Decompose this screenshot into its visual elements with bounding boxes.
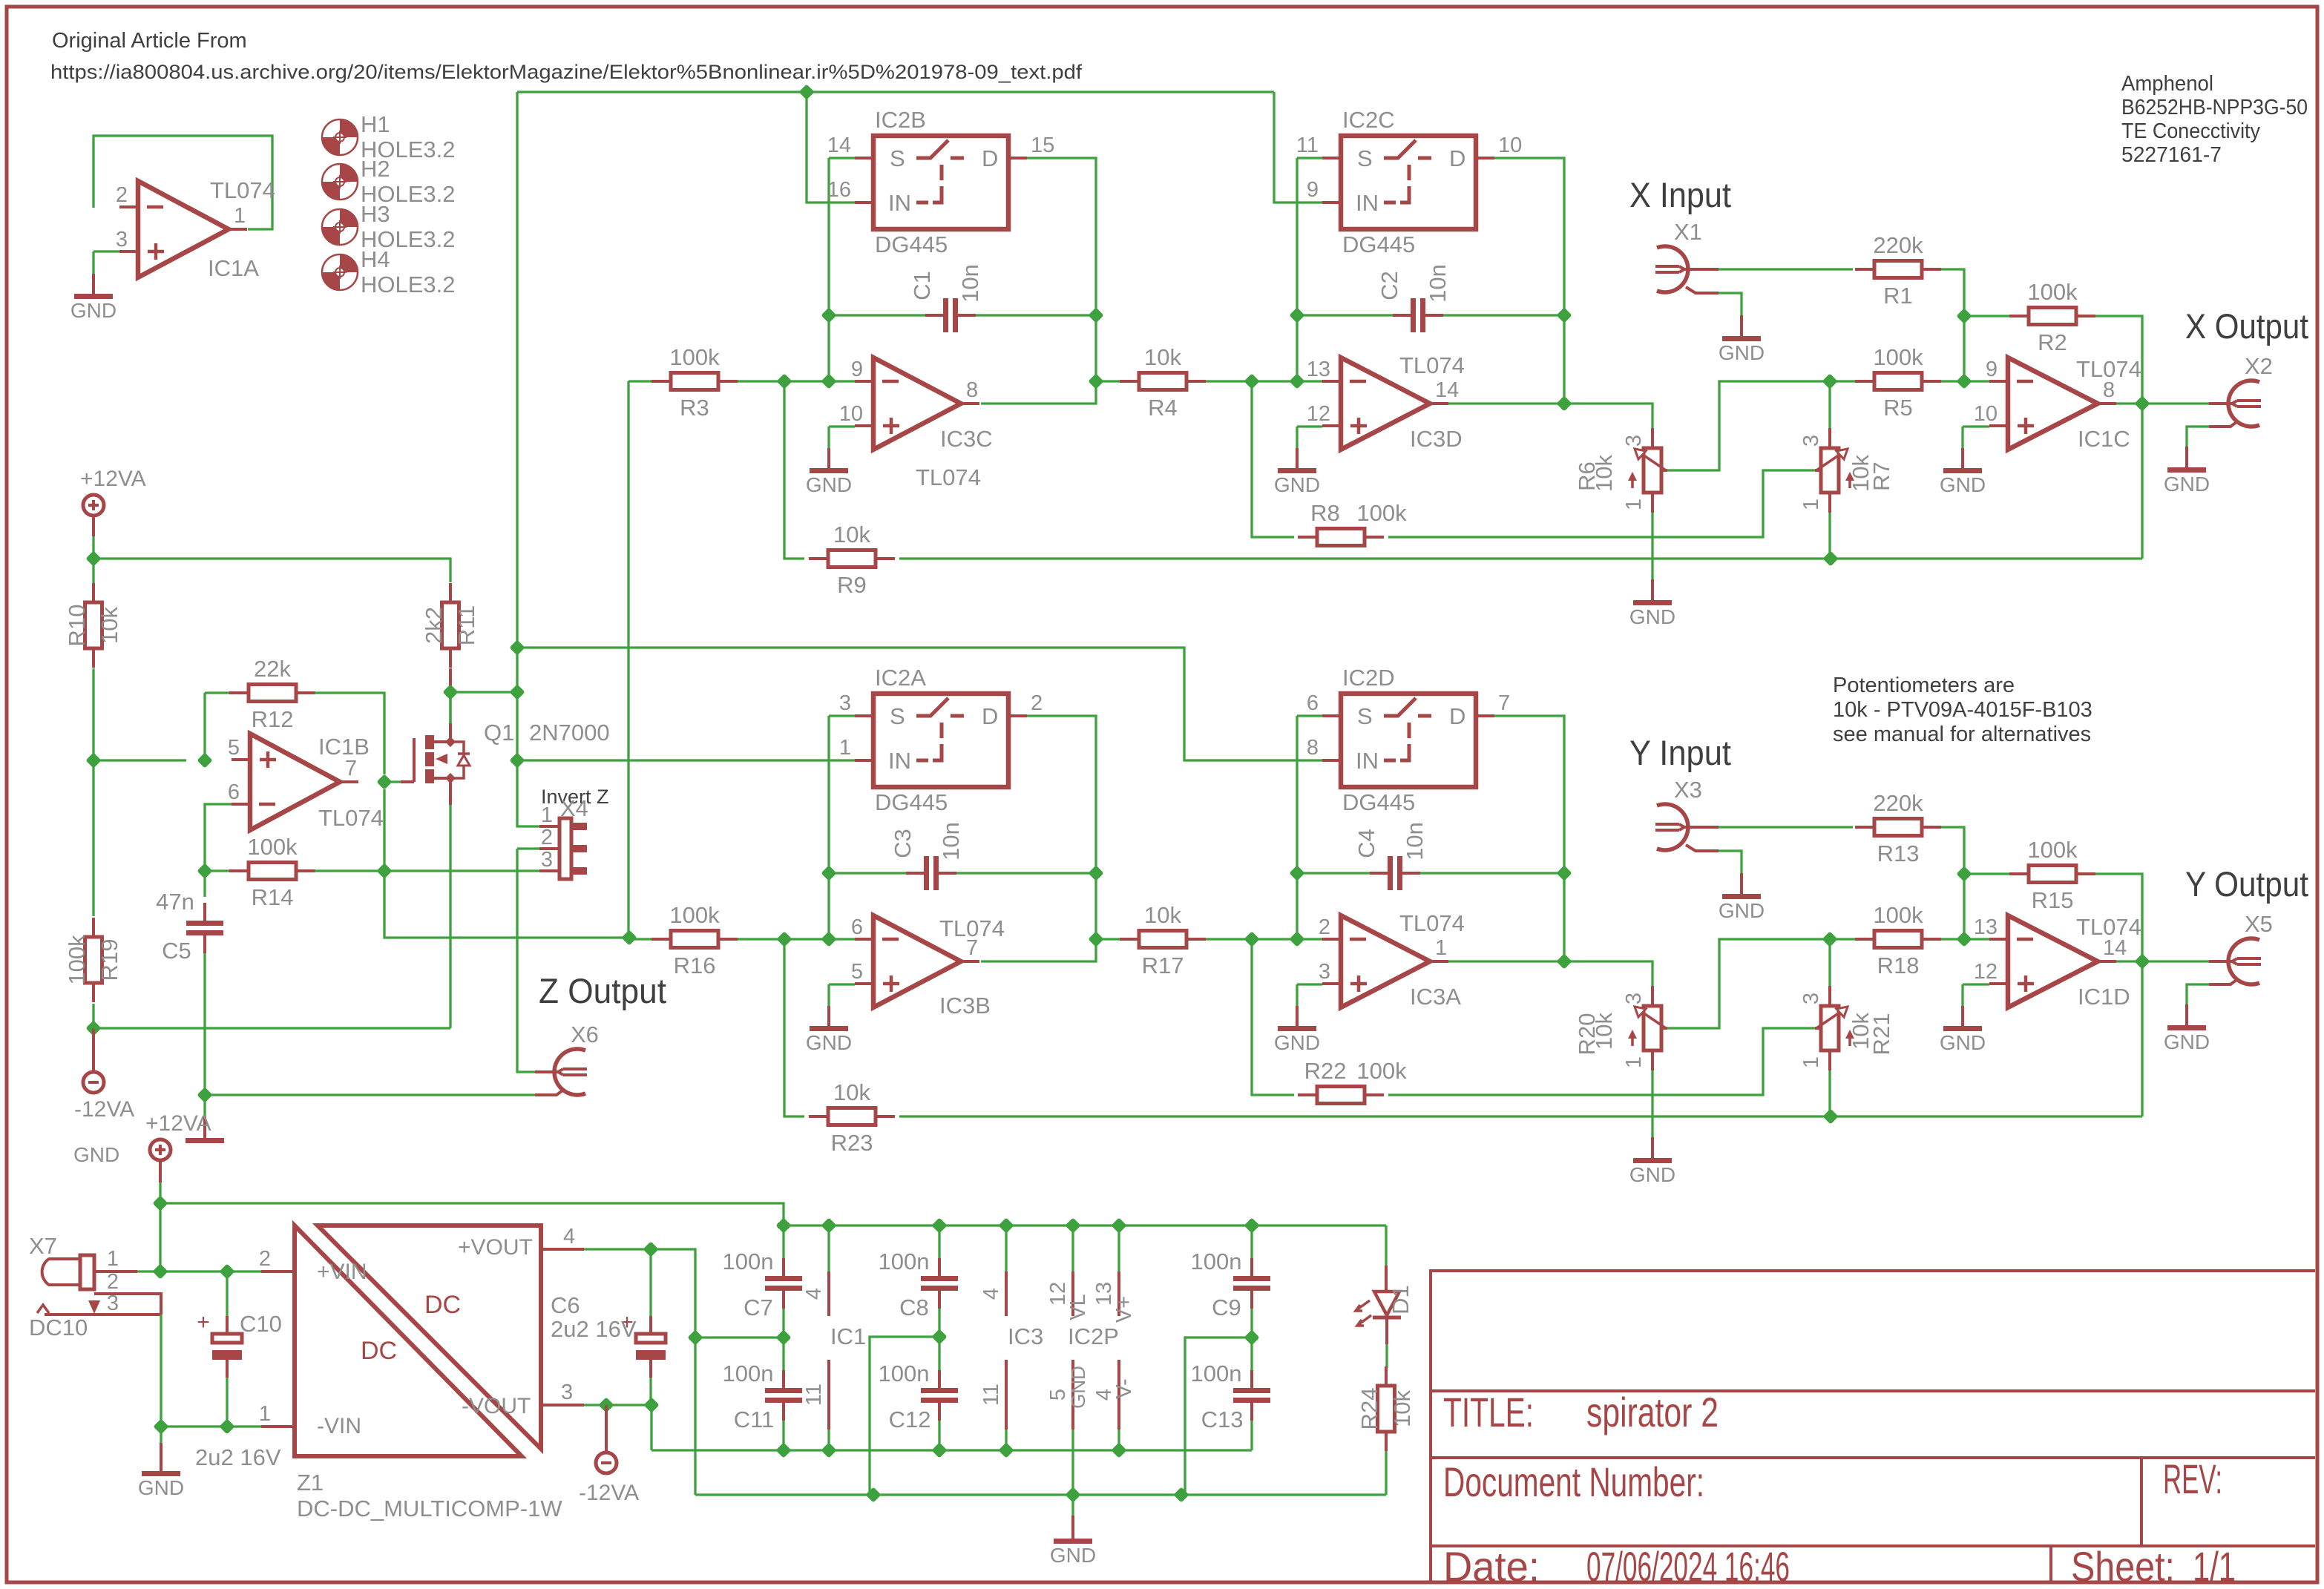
svg-text:7: 7 (345, 757, 357, 780)
ground X5 (2187, 984, 2209, 1004)
svg-text:C13: C13 (1201, 1407, 1244, 1432)
wire R16 right to op-amp (738, 938, 855, 940)
wire R14 right to node (315, 869, 384, 872)
hole H1 (340, 119, 358, 137)
svg-text:D: D (982, 703, 998, 729)
svg-text:4: 4 (802, 1288, 826, 1300)
svg-text:100k: 100k (2027, 279, 2078, 305)
ground IC2P (1071, 1516, 1074, 1541)
svg-text:10k: 10k (96, 607, 122, 644)
wire IC1B pin6 to R14 (205, 804, 232, 871)
svg-text:R3: R3 (680, 395, 709, 421)
wire R12 loop (203, 693, 206, 760)
svg-text:GND: GND (1940, 1031, 1986, 1054)
svg-text:10: 10 (1498, 134, 1522, 157)
op-amp IC3A (1341, 915, 1430, 1007)
ground X1 (1719, 293, 1742, 315)
wire R11 bottom to Q1 drain (449, 668, 452, 692)
-12VA supply bottom (605, 1405, 608, 1452)
hole H2 (340, 164, 358, 182)
resistor R19 100k (92, 918, 95, 937)
wire R21 bottom to feedback (1828, 1070, 1831, 1116)
wire IC1D + to ground (1963, 983, 1989, 985)
svg-text:D: D (1449, 703, 1465, 729)
svg-text:IC1A: IC1A (208, 255, 259, 281)
wire IC1B out to Q1 gate (384, 780, 401, 783)
svg-text:3: 3 (1799, 993, 1823, 1004)
svg-text:GND: GND (806, 473, 852, 496)
svg-text:Original Article From: Original Article From (52, 29, 247, 53)
svg-text:IC1D: IC1D (2078, 984, 2130, 1010)
svg-text:R7: R7 (1868, 461, 1894, 491)
svg-text:C6: C6 (551, 1292, 580, 1318)
wire to IC2B IN (807, 92, 855, 203)
connector X2 output (2228, 381, 2259, 427)
svg-text:+VOUT: +VOUT (458, 1235, 533, 1260)
svg-text:DG445: DG445 (875, 789, 948, 815)
svg-text:IC3B: IC3B (939, 993, 991, 1019)
svg-text:IC2A: IC2A (875, 665, 926, 691)
wire D1 to R24 (1385, 1344, 1388, 1368)
svg-text:C10: C10 (240, 1311, 282, 1337)
svg-text:X Input: X Input (1629, 175, 1731, 214)
svg-text:Sheet:: Sheet: (2071, 1543, 2175, 1589)
svg-text:47n: 47n (156, 889, 194, 915)
svg-text:IC3D: IC3D (1410, 426, 1463, 452)
resistor R1 220k (1855, 268, 1874, 271)
wire feedback R22 (1252, 939, 1294, 1095)
IC3 power pins (1005, 1271, 1008, 1316)
svg-text:100k: 100k (64, 935, 90, 985)
wire C2 right (1443, 314, 1564, 316)
svg-text:GND: GND (73, 1143, 119, 1166)
svg-text:GND: GND (138, 1476, 184, 1499)
wire IC2B D pin down (981, 158, 1096, 404)
svg-text:IN: IN (888, 190, 911, 216)
wire R1 right (1941, 269, 1964, 381)
wire X7 pin1 to Z1 (160, 1270, 261, 1272)
svg-text:IC1B: IC1B (318, 734, 370, 760)
svg-text:R13: R13 (1877, 840, 1920, 866)
svg-text:3: 3 (839, 691, 851, 715)
resistor R9 10k (809, 557, 828, 560)
svg-text:2u2 16V: 2u2 16V (195, 1444, 281, 1470)
svg-text:D: D (982, 145, 998, 171)
wire C5 bottom to GND (203, 953, 206, 1095)
svg-text:R18: R18 (1877, 953, 1920, 978)
switch IC2B DG445 (873, 136, 1008, 229)
svg-text:12: 12 (1307, 402, 1330, 426)
svg-text:11: 11 (1296, 134, 1319, 157)
wire C8 bottom to GND rail (870, 1337, 939, 1495)
resistor R24 10k (1385, 1366, 1388, 1386)
svg-text:IN: IN (1356, 748, 1379, 774)
svg-text:TL074: TL074 (916, 464, 981, 490)
resistor R13 220k (1855, 826, 1874, 829)
svg-text:10k: 10k (1591, 455, 1617, 492)
svg-text:3: 3 (107, 1292, 119, 1315)
svg-text:Date:: Date: (1443, 1543, 1540, 1589)
svg-text:TL074: TL074 (939, 915, 1005, 941)
wire R15 right down (2095, 874, 2142, 1116)
svg-text:GND: GND (806, 1031, 852, 1054)
X7 pin2 (94, 1294, 161, 1315)
svg-text:100k: 100k (1356, 500, 1407, 526)
svg-text:1: 1 (1622, 1056, 1646, 1068)
svg-text:+VIN: +VIN (317, 1260, 367, 1284)
capacitor C12 100n (921, 1388, 958, 1393)
svg-text:10: 10 (1974, 402, 1998, 426)
resistor R5 100k (1855, 380, 1874, 383)
svg-text:R9: R9 (837, 572, 867, 598)
+12VA supply top (83, 495, 104, 516)
V- rail (651, 1449, 1252, 1451)
-12VA supply (83, 1072, 104, 1093)
svg-text:TL074: TL074 (1399, 910, 1465, 936)
svg-text:07/06/2024 16:46: 07/06/2024 16:46 (1586, 1543, 1790, 1589)
wire -12VA rail to Q1 source (93, 1027, 450, 1029)
wire control to IC2A IN (517, 759, 855, 761)
wire IC1B output node vertical (384, 789, 629, 938)
wire C4 left (1297, 872, 1370, 874)
svg-text:S: S (890, 703, 905, 729)
svg-text:TL074: TL074 (318, 805, 384, 831)
resistor R10 10k (92, 583, 95, 602)
svg-text:Potentiometers are: Potentiometers are (1833, 674, 2015, 697)
svg-text:3: 3 (116, 228, 128, 251)
connector X1 input (1657, 246, 1688, 292)
svg-text:2u2 16V: 2u2 16V (551, 1316, 637, 1342)
capacitor C2 10n (1411, 298, 1416, 332)
wire R23 right (899, 1115, 2142, 1117)
svg-text:IC3: IC3 (1008, 1323, 1043, 1349)
svg-text:D: D (1449, 145, 1465, 171)
svg-text:Y Output: Y Output (2185, 864, 2308, 904)
wire S-pin vertical via cap left C3 (827, 716, 830, 939)
svg-text:10k - PTV09A-4015F-B103: 10k - PTV09A-4015F-B103 (1833, 698, 2092, 722)
svg-text:6: 6 (228, 780, 240, 804)
op-amp IC3C (873, 358, 961, 450)
resistor R4 10k (1120, 380, 1139, 383)
svg-text:VL: VL (1066, 1294, 1090, 1320)
svg-text:DC: DC (361, 1337, 397, 1365)
wire R7 bottom to feedback (1828, 513, 1831, 559)
svg-text:Z Output: Z Output (539, 971, 666, 1010)
capacitor C3 10n (924, 856, 929, 890)
Z1 -VOUT pin (541, 1404, 584, 1407)
svg-text:6: 6 (1307, 691, 1319, 715)
svg-text:V+: V+ (1112, 1296, 1136, 1323)
svg-text:R12: R12 (252, 706, 294, 732)
svg-text:1: 1 (541, 803, 553, 827)
svg-text:GND: GND (1629, 1163, 1675, 1186)
svg-text:1: 1 (1799, 1056, 1823, 1068)
svg-text:IC2D: IC2D (1342, 665, 1395, 691)
svg-text:X Output: X Output (2185, 306, 2308, 346)
wire C1 right (976, 314, 1096, 316)
wire X1 to R1 (1719, 268, 1853, 270)
wire R15 left (1964, 872, 2009, 875)
svg-text:1: 1 (1799, 499, 1823, 510)
svg-text:100n: 100n (1191, 1361, 1242, 1386)
wire R5 wires (1830, 380, 1855, 382)
wire to IC2C IN (1274, 92, 1322, 203)
svg-text:R22: R22 (1304, 1058, 1347, 1084)
svg-text:10k: 10k (1144, 344, 1181, 370)
svg-text:IN: IN (1356, 190, 1379, 216)
wire R5 node down to R7 (1828, 381, 1831, 428)
svg-text:TL074: TL074 (2076, 914, 2141, 940)
capacitor C7 100n (765, 1276, 802, 1281)
svg-text:TE Conecctivity: TE Conecctivity (2121, 119, 2260, 143)
wire R4 left (1096, 380, 1120, 382)
svg-text:Y Input: Y Input (1629, 733, 1731, 772)
svg-text:16: 16 (827, 178, 851, 202)
svg-text:1: 1 (1435, 936, 1447, 960)
svg-text:3: 3 (1622, 993, 1646, 1004)
op-amp IC1A (138, 181, 229, 277)
wire IC3D output to pot (1448, 404, 1652, 428)
svg-text:2k2: 2k2 (421, 607, 447, 644)
svg-text:C9: C9 (1212, 1294, 1241, 1320)
wire IC1C + to ground (1963, 425, 1989, 427)
svg-text:14: 14 (1435, 378, 1459, 402)
wire IC3D + to ground (1297, 425, 1322, 427)
pot R21 10k (1821, 1006, 1839, 1050)
wire C1 left (829, 314, 925, 316)
svg-text:2: 2 (1319, 915, 1330, 939)
svg-text:10: 10 (839, 402, 863, 426)
svg-text:GND: GND (1067, 1366, 1089, 1409)
svg-text:14: 14 (827, 134, 851, 157)
wire R13 right (1941, 827, 1964, 939)
wire IC3C + to ground (829, 425, 855, 427)
svg-text:+: + (197, 1310, 210, 1335)
svg-text:100n: 100n (879, 1361, 930, 1386)
wire R3 left vertical to Z node (627, 381, 629, 938)
svg-text:IC1: IC1 (830, 1323, 866, 1349)
svg-text:2: 2 (1031, 691, 1043, 715)
svg-text:GND: GND (1719, 341, 1765, 364)
resistor R3 100k (651, 380, 671, 383)
wire R20 wiper to R18 (1667, 939, 1830, 1028)
svg-text:10k: 10k (1144, 902, 1181, 928)
svg-text:R15: R15 (2032, 887, 2074, 913)
svg-text:1/1: 1/1 (2193, 1543, 2236, 1589)
svg-text:R2: R2 (2038, 329, 2067, 355)
connector X6 Z output (554, 1049, 585, 1095)
X7 pin3 / DC10 flag (45, 1313, 161, 1316)
svg-text:6: 6 (851, 915, 863, 939)
svg-text:C11: C11 (734, 1407, 775, 1432)
wire S-pin vertical via cap left C1 (827, 158, 830, 381)
svg-text:IC2B: IC2B (875, 107, 926, 133)
IC1 power pins (827, 1271, 830, 1316)
resistor R2 100k (2009, 315, 2029, 318)
wire R3 right to op-amp (738, 380, 855, 382)
svg-text:2: 2 (116, 183, 128, 207)
svg-text:R11: R11 (453, 605, 479, 646)
svg-text:100n: 100n (1191, 1248, 1242, 1274)
svg-text:C5: C5 (162, 938, 191, 964)
svg-text:S: S (1357, 703, 1373, 729)
svg-text:IN: IN (888, 748, 911, 774)
wire control top rail (517, 91, 1274, 93)
svg-text:R4: R4 (1148, 395, 1178, 421)
svg-text:3: 3 (1799, 435, 1823, 447)
svg-text:10k: 10k (1389, 1390, 1415, 1427)
resistor R8 100k (1298, 536, 1317, 539)
svg-text:H3: H3 (361, 201, 390, 227)
svg-text:2: 2 (107, 1270, 119, 1294)
svg-text:5227161-7: 5227161-7 (2121, 143, 2222, 167)
svg-text:DG445: DG445 (875, 231, 948, 257)
wire Z gnd line to X6 (205, 1093, 535, 1096)
ground R6 (1651, 513, 1653, 579)
connector X3 input (1657, 804, 1688, 850)
svg-text:Q1: Q1 (484, 720, 514, 746)
resistor R23 10k (809, 1115, 828, 1118)
ground IC1A (92, 274, 95, 296)
wire feedback R9 (784, 381, 804, 559)
svg-text:GND: GND (1274, 473, 1320, 496)
wire X4 pin2 to X6 (517, 849, 535, 1072)
svg-text:X3: X3 (1674, 777, 1702, 803)
svg-text:15: 15 (1031, 134, 1054, 157)
resistor R17 10k (1120, 938, 1139, 941)
svg-text:3: 3 (1622, 435, 1646, 447)
wire C3 right (956, 872, 1096, 874)
connector X5 output (2228, 938, 2259, 984)
svg-text:IC3A: IC3A (1410, 984, 1461, 1010)
wire R2 left (1964, 315, 2009, 317)
wire R17 right (1206, 938, 1322, 940)
wire C5 vertical (203, 803, 206, 805)
svg-text:DC: DC (424, 1291, 461, 1319)
svg-text:1: 1 (107, 1247, 119, 1271)
svg-text:1: 1 (1622, 499, 1646, 510)
GND rail (695, 1493, 1386, 1496)
wire +12VA to R10 and R11 (92, 536, 94, 583)
wire R18 wires (1830, 938, 1855, 940)
svg-text:3: 3 (1319, 960, 1330, 984)
svg-text:TL074: TL074 (210, 177, 275, 203)
wire R24 bottom to GND rail (1385, 1451, 1387, 1495)
wire node to X4 pin3 (384, 869, 539, 872)
svg-text:Z1: Z1 (297, 1470, 324, 1496)
svg-text:DG445: DG445 (1342, 231, 1415, 257)
hole H4 (340, 254, 358, 272)
capacitor C4 10n (1388, 856, 1393, 890)
svg-text:HOLE3.2: HOLE3.2 (361, 272, 456, 297)
ground X3 (1719, 851, 1742, 873)
wire IC2A D pin down (981, 716, 1096, 961)
ground mid rail C7/C11 (695, 1336, 784, 1338)
wire Q1 source to -12VA rail (449, 778, 452, 805)
wire control to IC2D IN (517, 648, 1322, 760)
svg-text:DG445: DG445 (1342, 789, 1415, 815)
svg-text:13: 13 (1307, 358, 1330, 381)
svg-text:R1: R1 (1883, 283, 1913, 309)
title block frame (1431, 1271, 2315, 1582)
wire IC2C D pin down (1494, 158, 1564, 404)
svg-text:-12VA: -12VA (579, 1481, 639, 1505)
svg-text:2: 2 (541, 826, 553, 849)
capacitor C5 47n (186, 921, 223, 926)
svg-text:C2: C2 (1376, 271, 1402, 300)
pot R6 10k (1644, 448, 1661, 493)
ground under C5 (203, 1116, 206, 1140)
ground IC3A (1296, 1006, 1299, 1028)
svg-text:10n: 10n (1402, 822, 1428, 861)
svg-text:11: 11 (979, 1384, 1003, 1406)
svg-text:10k: 10k (833, 522, 870, 547)
capacitor C10 2u2 (212, 1334, 242, 1343)
svg-text:10n: 10n (957, 264, 983, 303)
capacitor C8 100n (921, 1276, 958, 1281)
svg-text:1: 1 (839, 736, 851, 760)
switch IC2A DG445 (873, 694, 1008, 787)
wire IC3A + to ground (1297, 983, 1322, 985)
svg-text:R5: R5 (1883, 395, 1913, 421)
wire divider mid to IC1B pin5 (93, 759, 186, 761)
ground IC3B (827, 1006, 830, 1028)
svg-text:100k: 100k (669, 344, 720, 370)
svg-text:GND: GND (1274, 1031, 1320, 1054)
svg-text:IC1C: IC1C (2078, 426, 2130, 452)
svg-text:1: 1 (234, 204, 246, 228)
svg-text:1: 1 (259, 1402, 271, 1426)
svg-text:12: 12 (1974, 960, 1998, 984)
svg-text:R10: R10 (64, 605, 90, 647)
op-amp IC1C (2008, 358, 2098, 450)
svg-text:R23: R23 (831, 1130, 873, 1156)
svg-text:Document Number:: Document Number: (1443, 1458, 1704, 1505)
svg-text:7: 7 (1498, 691, 1510, 715)
svg-text:4: 4 (563, 1225, 575, 1248)
wire +12VA node (159, 1182, 161, 1271)
svg-text:100n: 100n (879, 1248, 930, 1274)
svg-text:R8: R8 (1310, 500, 1340, 526)
ground IC3C (827, 448, 830, 470)
svg-text:100n: 100n (723, 1361, 774, 1386)
wire IC3B + to ground (829, 983, 855, 985)
ground IC3D (1296, 448, 1299, 470)
wire X7 gnd down (160, 1315, 162, 1427)
hole H3 (340, 209, 358, 227)
wire X3 to R13 (1719, 826, 1853, 828)
svg-text:C4: C4 (1353, 829, 1379, 858)
ground IC1C (1961, 448, 1964, 470)
svg-text:X6: X6 (571, 1021, 599, 1047)
svg-text:X2: X2 (2245, 353, 2273, 379)
wire S vertical right via cap C4 (1296, 716, 1298, 939)
svg-text:100k: 100k (1873, 344, 1923, 370)
svg-text:C7: C7 (744, 1294, 773, 1320)
resistor R16 100k (651, 938, 671, 941)
pot R7 10k (1821, 448, 1839, 493)
transistor Q1 2N7000 (413, 738, 416, 782)
wire R8 right to wiper R7 (1388, 470, 1816, 537)
svg-text:X5: X5 (2245, 911, 2273, 937)
svg-text:100k: 100k (247, 834, 298, 860)
wire IC3A output to pot (1448, 961, 1652, 986)
svg-text:9: 9 (1307, 178, 1319, 202)
wire C9 bottom jog to GND rail (1185, 1338, 1252, 1495)
wire R22 right to wiper R21 (1388, 1028, 1816, 1095)
svg-text:-VOUT: -VOUT (462, 1394, 531, 1418)
svg-text:GND: GND (1940, 473, 1986, 496)
